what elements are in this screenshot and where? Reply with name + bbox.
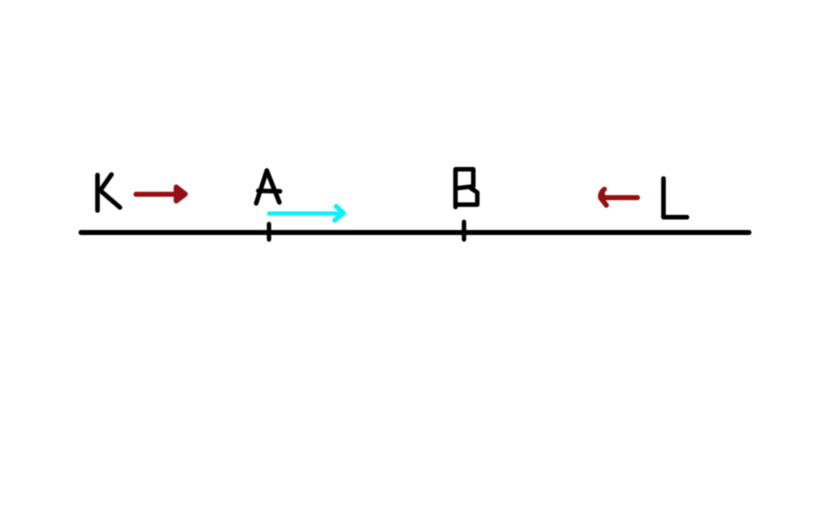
arrow K (dark red, right) bbox=[136, 187, 185, 201]
arrow A (cyan, right) bbox=[269, 206, 343, 220]
label B bbox=[456, 169, 478, 207]
arrow L (dark red, left) bbox=[600, 189, 637, 205]
tick A bbox=[267, 224, 271, 240]
label A bbox=[256, 171, 280, 204]
main horizontal line bbox=[81, 230, 749, 235]
label K bbox=[98, 175, 121, 211]
tick B bbox=[462, 222, 466, 240]
label L bbox=[664, 179, 688, 218]
